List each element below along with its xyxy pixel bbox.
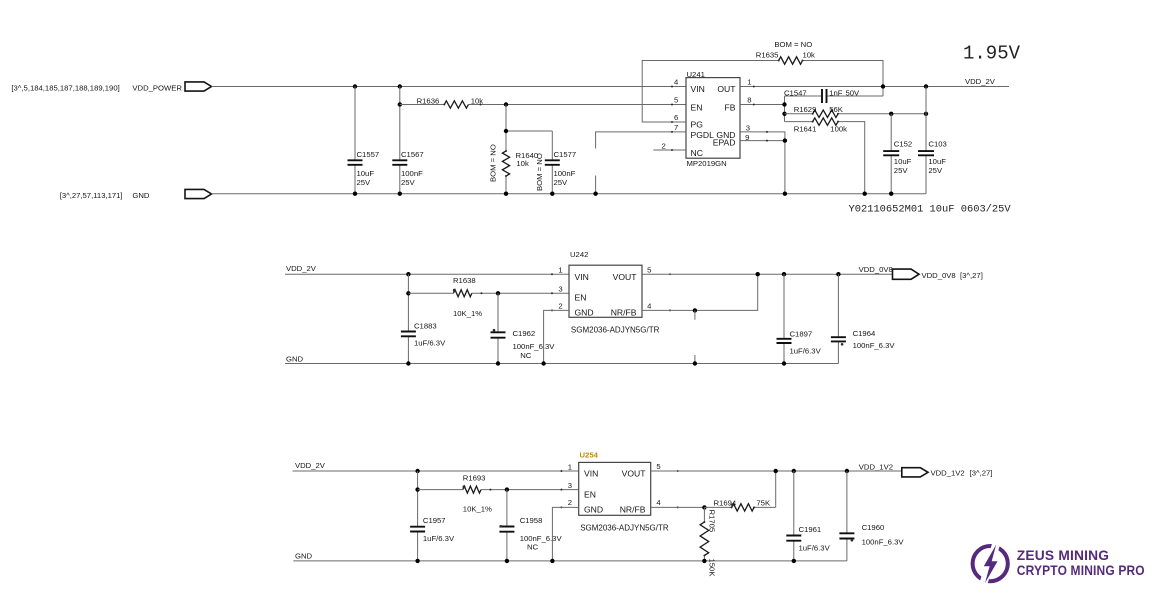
svg-text:25V: 25V <box>357 178 372 187</box>
svg-text:3: 3 <box>558 285 562 294</box>
svg-text:[3^,27]: [3^,27] <box>970 468 993 477</box>
svg-text:100nF: 100nF <box>401 169 423 178</box>
capacitor C1961 <box>793 471 795 561</box>
node C1958/GND <box>505 559 509 563</box>
svg-text:100nF_6.3V: 100nF_6.3V <box>513 342 556 351</box>
resistor R1629 <box>785 113 927 115</box>
node stub/GND mid <box>693 361 697 365</box>
svg-text:R1693: R1693 <box>463 474 486 483</box>
wire U241 GND EPAD <box>740 132 785 194</box>
node R1640 tee <box>504 129 508 133</box>
svg-text:R1635: R1635 <box>756 51 779 60</box>
node VDD_POWER/C1567 <box>398 84 402 88</box>
wire OUT VDD_2V <box>740 86 1009 88</box>
svg-text:R1636: R1636 <box>417 97 440 106</box>
wire stub below NRFB <box>694 310 696 319</box>
svg-text:VDD_2V: VDD_2V <box>286 264 317 273</box>
wire U242 GND pin <box>544 310 569 363</box>
wire EN mid <box>408 292 569 294</box>
resistor R1641 <box>785 122 865 194</box>
svg-text:100k: 100k <box>830 124 847 133</box>
svg-text:C152: C152 <box>894 140 912 149</box>
capacitor C1957 <box>417 471 419 561</box>
node C1957/GND <box>415 559 419 563</box>
node EPAD <box>783 138 787 142</box>
node C152/GND <box>889 192 893 196</box>
svg-text:25V: 25V <box>554 178 569 187</box>
svg-text:GND: GND <box>132 191 150 200</box>
node VDD_2V/C103 <box>924 84 928 88</box>
svg-text:1uF/6.3V: 1uF/6.3V <box>790 347 822 356</box>
node R1640/GND <box>504 192 508 196</box>
svg-text:PGDL: PGDL <box>691 130 715 140</box>
svg-text:10k: 10k <box>803 51 816 60</box>
wire NC stub <box>653 149 686 151</box>
svg-text:C1957: C1957 <box>423 516 446 525</box>
capacitor C1897 <box>783 274 785 363</box>
svg-text:C1897: C1897 <box>790 330 813 339</box>
svg-text:U254: U254 <box>580 451 599 460</box>
svg-text:VOUT: VOUT <box>622 469 647 479</box>
node C1897/GND <box>782 361 786 365</box>
node EN tap <box>398 102 402 106</box>
resistor R1640 <box>502 151 509 176</box>
svg-text:ZEUS MINING: ZEUS MINING <box>1017 547 1109 563</box>
svg-text:C1557: C1557 <box>357 150 380 159</box>
svg-text:[3^,27,57,113,171]: [3^,27,57,113,171] <box>60 191 123 200</box>
svg-text:1nF: 1nF <box>829 88 843 97</box>
node VDD_POWER/C1557 <box>353 84 357 88</box>
port VDD_1V2 <box>902 468 928 477</box>
node R1694/VOUT <box>774 469 778 473</box>
svg-text:C1961: C1961 <box>799 525 822 534</box>
node R1629 left <box>782 112 786 116</box>
svg-text:C1577: C1577 <box>554 150 577 159</box>
svg-text:6: 6 <box>674 113 678 122</box>
svg-text:FB: FB <box>725 103 736 113</box>
svg-text:GND: GND <box>584 505 603 515</box>
node C1567/GND <box>398 192 402 196</box>
port GND <box>185 189 212 198</box>
resistor R1693 <box>463 486 481 493</box>
wire VDD_2V mid <box>285 273 569 275</box>
regulator U254 SGM2036 <box>579 462 651 515</box>
svg-text:VOUT: VOUT <box>613 272 638 282</box>
svg-text:CRYPTO MINING PRO: CRYPTO MINING PRO <box>1017 562 1145 578</box>
svg-text:R1638: R1638 <box>453 276 476 285</box>
svg-text:GND: GND <box>286 354 304 363</box>
capacitor C1958 <box>506 490 508 561</box>
svg-text:10K_1%: 10K_1% <box>453 309 482 318</box>
svg-text:3: 3 <box>568 481 572 490</box>
node VOUT/C1964 <box>836 272 840 276</box>
pin end dots U242 <box>551 273 553 275</box>
svg-text:1uF/6.3V: 1uF/6.3V <box>799 544 831 553</box>
resistor R1638 <box>454 290 472 297</box>
svg-text:VDD_1V2: VDD_1V2 <box>931 468 965 477</box>
node C1962/GND <box>496 361 500 365</box>
svg-text:1: 1 <box>747 78 751 87</box>
svg-text:10uF: 10uF <box>894 157 912 166</box>
logo ring gaps <box>982 535 1000 589</box>
pin end dots U254 <box>560 470 562 472</box>
svg-text:C1567: C1567 <box>401 150 424 159</box>
node VDD_2V/C1883 <box>406 272 410 276</box>
node NRFB/VOUT mid <box>756 272 760 276</box>
capacitor C1960 <box>846 471 848 561</box>
svg-text:2: 2 <box>568 498 572 507</box>
svg-text:U241: U241 <box>687 70 705 79</box>
wire GND rail mid <box>285 363 838 365</box>
svg-text:VIN: VIN <box>691 84 705 94</box>
svg-text:GND: GND <box>575 308 594 318</box>
node U254-GND/rail <box>550 559 554 563</box>
svg-text:100nF_6.3V: 100nF_6.3V <box>853 341 896 350</box>
svg-text:1uF/6.3V: 1uF/6.3V <box>414 339 446 348</box>
svg-text:C103: C103 <box>928 140 946 149</box>
svg-text:5: 5 <box>656 462 660 471</box>
svg-text:10uF: 10uF <box>928 157 946 166</box>
svg-text:EN: EN <box>584 490 596 500</box>
svg-text:100nF_6.3V: 100nF_6.3V <box>862 537 905 546</box>
svg-text:NC: NC <box>691 148 703 158</box>
node R1638 tap <box>406 291 410 295</box>
op chip U241 MP2019GN <box>686 78 740 159</box>
svg-text:R1705: R1705 <box>708 510 717 533</box>
svg-text:C1960: C1960 <box>862 523 885 532</box>
svg-text:1: 1 <box>558 266 562 275</box>
capacitor C1547 <box>785 95 884 97</box>
svg-text:VDD_2V: VDD_2V <box>965 77 996 86</box>
wire VOUT bot <box>651 470 902 472</box>
svg-text:NR/FB: NR/FB <box>611 308 637 318</box>
capacitor C1962 <box>497 293 499 363</box>
svg-text:C1958: C1958 <box>520 516 543 525</box>
svg-text:75K: 75K <box>756 498 771 507</box>
resistor R1705 <box>703 507 705 561</box>
svg-text:BOM = NO: BOM = NO <box>774 40 812 49</box>
node NRFB stub <box>693 308 697 312</box>
svg-text:Y02110652M01 10uF 0603/25V: Y02110652M01 10uF 0603/25V <box>849 204 1012 216</box>
wire EN left <box>400 104 686 106</box>
resistor R1694 <box>704 471 775 507</box>
svg-text:7: 7 <box>674 123 678 132</box>
wire EN bot <box>418 489 579 491</box>
wire GND rail top <box>212 193 927 195</box>
node R1641/GND <box>863 192 867 196</box>
wire VOUT mid <box>642 273 893 275</box>
svg-text:C1883: C1883 <box>414 322 437 331</box>
wire R1640 branch <box>506 105 552 194</box>
wire stub above GND mid <box>694 355 696 364</box>
wire VDD_2V bot <box>293 470 579 472</box>
svg-text:5: 5 <box>647 266 651 275</box>
node VOUT/C1961 <box>792 469 796 473</box>
svg-text:56K: 56K <box>829 105 844 114</box>
svg-text:MP2019GN: MP2019GN <box>687 159 727 168</box>
svg-text:EPAD: EPAD <box>713 138 736 148</box>
svg-text:8: 8 <box>747 96 751 105</box>
svg-text:C1964: C1964 <box>853 329 876 338</box>
wire PGDL stub <box>596 132 686 194</box>
svg-text:25V: 25V <box>401 178 416 187</box>
svg-text:VDD_POWER: VDD_POWER <box>132 84 182 93</box>
svg-text:1uF/6.3V: 1uF/6.3V <box>423 534 455 543</box>
node EN/C1962 <box>496 291 500 295</box>
svg-text:1.95V: 1.95V <box>963 43 1021 65</box>
svg-text:EN: EN <box>691 103 703 113</box>
svg-text:U242: U242 <box>570 250 588 259</box>
node U241-GND/rail <box>783 192 787 196</box>
node EN/C1958 <box>505 487 509 491</box>
svg-text:3: 3 <box>746 123 750 132</box>
port VDD_POWER <box>185 82 212 91</box>
svg-text:VDD_1V2: VDD_1V2 <box>859 462 893 471</box>
svg-text:2: 2 <box>662 142 666 151</box>
logo zeus ring <box>973 546 1008 581</box>
logo lightning bolt <box>984 545 998 584</box>
svg-text:4: 4 <box>647 301 652 310</box>
svg-text:GND: GND <box>295 552 313 561</box>
capacitor C1964 <box>837 274 839 363</box>
capacitor C1557 <box>354 87 356 194</box>
node EN/R1640 <box>504 102 508 106</box>
node U242-GND/rail <box>541 361 545 365</box>
svg-text:2: 2 <box>558 301 562 310</box>
node C1883/GND <box>406 361 410 365</box>
capacitor C1883 <box>407 274 409 363</box>
node C1577/GND <box>550 192 554 196</box>
regulator U242 SGM2036 <box>569 265 642 317</box>
svg-text:10k: 10k <box>516 159 529 168</box>
resistor R1635 <box>779 57 803 64</box>
svg-text:PG: PG <box>691 119 704 129</box>
svg-text:5: 5 <box>674 96 678 105</box>
node C1961/GND <box>792 559 796 563</box>
svg-text:25V: 25V <box>894 166 909 175</box>
node FB <box>782 102 786 106</box>
node PGDL/GND <box>593 192 597 196</box>
node R1693 tap <box>415 487 419 491</box>
node VOUT/C1960 <box>845 469 849 473</box>
node R1635/VDD_2V <box>881 84 885 88</box>
svg-text:EN: EN <box>575 293 587 303</box>
svg-text:4: 4 <box>674 78 679 87</box>
capacitor C103 <box>925 87 927 194</box>
svg-text:10K_1%: 10K_1% <box>463 504 492 513</box>
svg-text:C1547: C1547 <box>784 88 807 97</box>
svg-text:NC: NC <box>527 542 539 551</box>
svg-text:50V: 50V <box>846 88 861 97</box>
svg-text:10uF: 10uF <box>357 169 375 178</box>
svg-text:C1962: C1962 <box>513 329 536 338</box>
svg-text:25V: 25V <box>928 166 943 175</box>
svg-text:4: 4 <box>656 498 661 507</box>
svg-text:[3^,5,184,185,187,188,189,190]: [3^,5,184,185,187,188,189,190] <box>11 84 119 93</box>
svg-text:NR/FB: NR/FB <box>620 505 646 515</box>
node C1557/GND <box>353 192 357 196</box>
svg-text:1: 1 <box>568 463 572 472</box>
capacitor C152 <box>890 114 892 194</box>
node NRFB/R1705 <box>702 505 706 509</box>
wire PG loop <box>642 61 883 123</box>
wire FB <box>740 96 785 122</box>
svg-text:R1641: R1641 <box>794 124 817 133</box>
svg-text:150K: 150K <box>708 559 717 578</box>
svg-text:NC: NC <box>520 351 532 360</box>
svg-text:VIN: VIN <box>575 272 589 282</box>
svg-text:SGM2036-ADJYN5G/TR: SGM2036-ADJYN5G/TR <box>580 523 669 532</box>
svg-text:VDD_0V8: VDD_0V8 <box>859 265 893 274</box>
svg-text:SGM2036-ADJYN5G/TR: SGM2036-ADJYN5G/TR <box>571 326 660 335</box>
capacitor C1577 <box>551 131 553 194</box>
svg-text:BOM = NO: BOM = NO <box>535 153 544 191</box>
node VDD_2V/C1957 <box>415 469 419 473</box>
node VOUT/C1897 <box>782 272 786 276</box>
node R1629/C152 <box>889 112 893 116</box>
node R1629/C103 <box>924 112 928 116</box>
svg-text:VDD_2V: VDD_2V <box>295 461 326 470</box>
svg-text:VIN: VIN <box>584 469 598 479</box>
wire U254 GND pin <box>552 507 578 561</box>
svg-text:OUT: OUT <box>717 84 736 94</box>
svg-text:100nF: 100nF <box>554 169 576 178</box>
port VDD_0V8 <box>893 269 920 279</box>
wire VDD_POWER to U241 VIN <box>212 86 687 88</box>
wire GND rail bot <box>293 560 847 562</box>
node R1705/GND <box>702 559 706 563</box>
capacitor C1567 <box>399 87 401 194</box>
svg-text:R1629: R1629 <box>794 105 817 114</box>
resistor R1636 <box>444 101 468 108</box>
svg-text:VDD_0V8: VDD_0V8 <box>922 271 956 280</box>
wire NR/FB bot <box>651 506 705 508</box>
svg-text:[3^,27]: [3^,27] <box>960 271 983 280</box>
svg-text:BOM = NO: BOM = NO <box>489 144 498 182</box>
wire NR/FB loop mid <box>642 274 758 310</box>
